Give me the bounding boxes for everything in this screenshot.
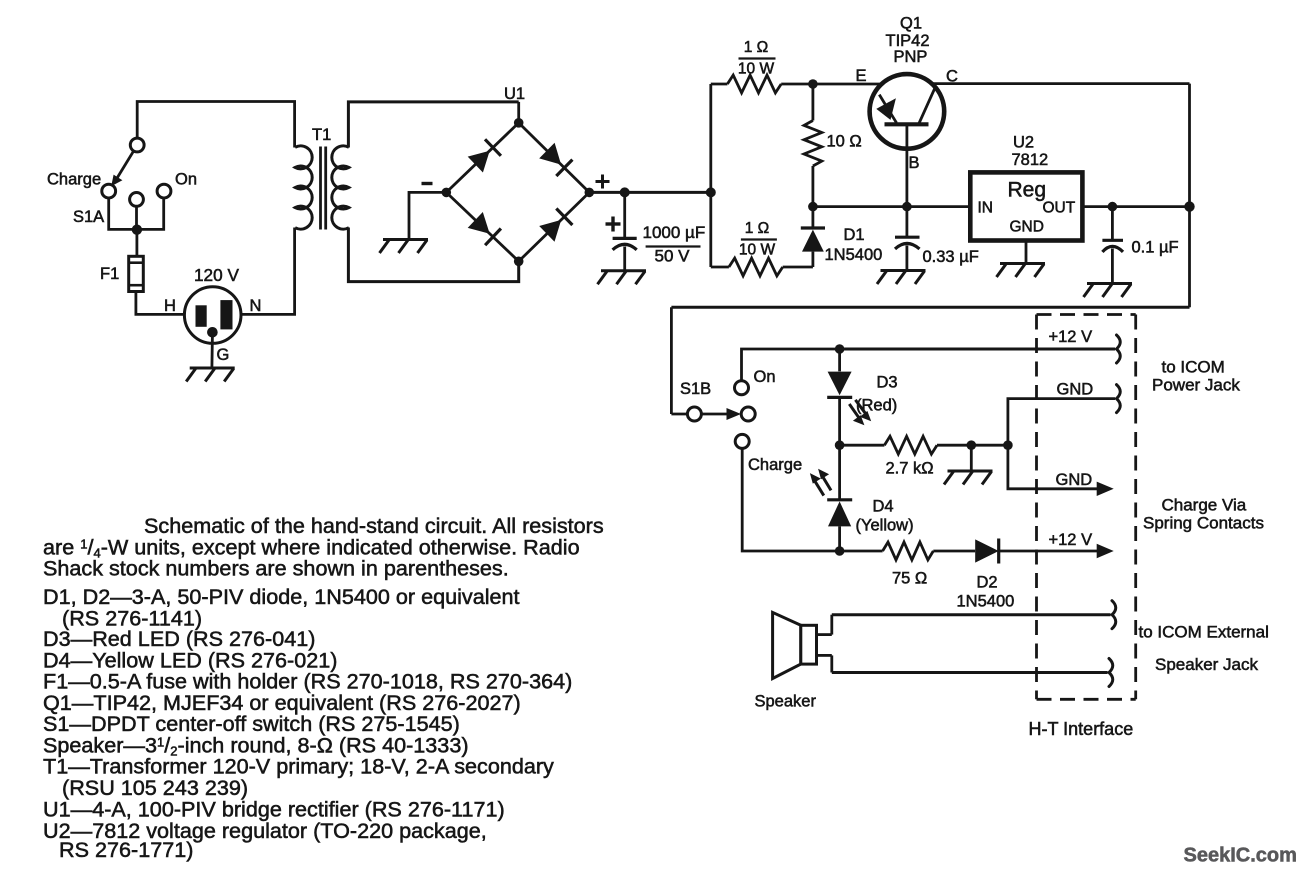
wire bridge to filter xyxy=(589,191,711,194)
node 2.7k gnd tap xyxy=(967,440,977,450)
label 7812 xyxy=(1012,151,1049,169)
label On S1B xyxy=(754,368,776,386)
svg-text:Charge: Charge xyxy=(748,456,802,474)
node branch split xyxy=(706,187,716,197)
plug 120V body xyxy=(184,287,241,344)
wire to top 1ohm xyxy=(711,83,728,86)
resistor R 1ohm bottom xyxy=(729,258,783,276)
label to ICOM External xyxy=(1139,623,1269,642)
wire right rail down xyxy=(1188,84,1191,308)
svg-text:H: H xyxy=(164,297,176,315)
label D4 xyxy=(873,498,894,516)
wire D2 to arrow xyxy=(999,550,1098,553)
transformer T1 core xyxy=(321,147,326,230)
diode D2 xyxy=(975,539,999,564)
wire gnd tap stub xyxy=(970,445,973,471)
bridge diode upper-right xyxy=(539,143,572,176)
wire primary top rail xyxy=(137,102,294,148)
node filter cap xyxy=(620,187,630,197)
wire to bottom 1ohm xyxy=(711,266,729,269)
svg-text:G: G xyxy=(217,346,230,364)
svg-text:GND: GND xyxy=(1010,219,1044,236)
label 75 ohm xyxy=(892,570,927,588)
plug blade H xyxy=(196,305,207,327)
svg-text:0.33 µF: 0.33 µF xyxy=(923,248,979,266)
node D1 rail xyxy=(808,202,818,212)
label F1 xyxy=(100,265,119,283)
plug ground pin xyxy=(207,327,218,338)
svg-text:RS 276-1771): RS 276-1771) xyxy=(59,837,193,862)
label +12V spring xyxy=(1049,531,1093,549)
label cap plus xyxy=(606,217,621,232)
watermark SeekIC.com xyxy=(1184,845,1297,867)
label U2 xyxy=(1013,133,1034,151)
transformer T1 secondary winding xyxy=(332,146,349,229)
node 0.33 cap xyxy=(902,202,912,212)
svg-text:F1: F1 xyxy=(100,265,119,283)
svg-text:Speaker Jack: Speaker Jack xyxy=(1155,655,1258,674)
regulator U2 ground pin xyxy=(1025,241,1028,264)
wire S1A to fuse xyxy=(135,230,138,257)
capacitor C 1000uF xyxy=(613,192,637,270)
label bridge minus xyxy=(422,182,433,185)
ground bridge xyxy=(380,240,429,254)
wire secondary top to bridge xyxy=(348,102,518,148)
label D2 1N5400 xyxy=(957,593,1015,611)
label D1 1N5400 xyxy=(825,246,883,264)
switch S1A Charge contact xyxy=(102,184,116,198)
speaker driver xyxy=(801,625,817,664)
wire S1B Charge lead xyxy=(742,448,839,551)
label 1000 uF xyxy=(643,223,706,242)
label D3 xyxy=(877,374,898,392)
capacitor C 0.1uF xyxy=(1102,207,1123,284)
LED D4 emission arrows xyxy=(810,469,831,496)
speaker leads xyxy=(817,615,832,673)
label 10 W top xyxy=(738,61,775,78)
resistor R 75ohm xyxy=(840,542,934,560)
regulator U2 box xyxy=(970,172,1082,240)
svg-text:D2: D2 xyxy=(977,574,998,592)
svg-text:0.1 µF: 0.1 µF xyxy=(1132,239,1179,257)
label IN xyxy=(978,200,994,217)
diode D1 xyxy=(801,207,825,267)
wire S1A outer contacts xyxy=(109,198,164,229)
switch S1A On contact xyxy=(157,184,171,198)
label E xyxy=(856,67,867,85)
transistor Q1 base lead xyxy=(906,124,909,206)
label D1 xyxy=(844,226,865,244)
resistor R 2.7k xyxy=(884,436,937,454)
arrow GND spring xyxy=(1097,482,1114,496)
label C xyxy=(946,68,958,86)
label On xyxy=(175,171,197,189)
label GND jack xyxy=(1057,381,1094,399)
label Charge S1B xyxy=(748,456,802,474)
label TIP42 xyxy=(886,32,930,50)
svg-text:to ICOM External: to ICOM External xyxy=(1139,623,1269,642)
svg-text:Shack stock numbers are shown: Shack stock numbers are shown in parenth… xyxy=(43,556,509,581)
svg-text:2.7 kΩ: 2.7 kΩ xyxy=(886,460,934,478)
wire speaker top xyxy=(832,613,1111,616)
label GND spring xyxy=(1056,471,1093,489)
fuse F1 xyxy=(129,256,144,291)
hook +12V jack xyxy=(1117,335,1121,363)
switch S1A top contact xyxy=(130,138,144,152)
switch S1B common contact xyxy=(687,407,701,421)
label to ICOM xyxy=(1162,358,1225,377)
caption text block xyxy=(43,513,604,862)
label H xyxy=(164,297,176,315)
label N xyxy=(250,297,262,315)
svg-text:GND: GND xyxy=(1056,471,1093,489)
label U1 xyxy=(504,85,525,103)
svg-text:SeekIC.com: SeekIC.com xyxy=(1184,845,1297,867)
svg-text:10 W: 10 W xyxy=(739,242,776,259)
svg-text:+12 V: +12 V xyxy=(1049,328,1093,346)
switch S1B arm xyxy=(702,408,741,420)
svg-text:H-T Interface: H-T Interface xyxy=(1029,719,1134,739)
wire plug ground lead xyxy=(210,336,213,368)
wire OUT rail xyxy=(1082,205,1189,208)
wire GND jack row xyxy=(1008,399,1115,446)
svg-text:Speaker: Speaker xyxy=(755,693,817,711)
wire 75ohm to D2 xyxy=(933,550,975,553)
svg-text:U1: U1 xyxy=(504,85,525,103)
svg-text:T1: T1 xyxy=(312,126,331,144)
hook speaker bottom jack xyxy=(1109,659,1113,687)
label T1 xyxy=(312,126,331,144)
label 10 ohm xyxy=(827,133,862,151)
switch S1B Charge contact xyxy=(735,434,749,448)
svg-text:+12 V: +12 V xyxy=(1049,531,1093,549)
bridge diode lower-right xyxy=(539,209,572,242)
label 0.1 uF xyxy=(1132,239,1179,257)
node gnd branch xyxy=(1003,440,1013,450)
svg-text:Power Jack: Power Jack xyxy=(1152,376,1240,395)
capacitor C 0.33uF xyxy=(895,207,920,271)
label S1A xyxy=(73,208,104,226)
svg-text:Spring Contacts: Spring Contacts xyxy=(1143,514,1264,533)
label OUT xyxy=(1043,200,1076,217)
wire S1B feed xyxy=(671,307,687,414)
wire branch vertical xyxy=(709,84,712,267)
node OUT a xyxy=(1108,202,1118,212)
label Power Jack xyxy=(1152,376,1240,395)
LED D3 emission arrows xyxy=(849,400,871,425)
label GND regulator xyxy=(1010,219,1044,236)
node LED bottom xyxy=(835,546,845,556)
svg-text:On: On xyxy=(754,368,776,386)
node bridge right xyxy=(585,188,595,198)
wire 2.7k to nodes xyxy=(937,444,1008,447)
label +12V top xyxy=(1049,328,1093,346)
ground filter cap xyxy=(598,271,647,285)
node E rail xyxy=(808,79,818,89)
svg-text:S1B: S1B xyxy=(680,380,711,398)
svg-text:1N5400: 1N5400 xyxy=(825,246,883,264)
wire S1B On lead xyxy=(742,349,840,381)
switch S1A arm xyxy=(111,151,133,186)
wire bottom 1ohm to D1 xyxy=(783,266,813,269)
svg-text:120 V: 120 V xyxy=(194,265,239,285)
label Speaker Jack xyxy=(1155,655,1258,674)
H-T interface dashed box xyxy=(1037,315,1136,700)
plug blade N xyxy=(220,300,232,329)
resistor R 1ohm top xyxy=(727,75,781,93)
label B xyxy=(909,154,920,172)
svg-text:50 V: 50 V xyxy=(655,247,691,266)
svg-text:OUT: OUT xyxy=(1043,200,1076,217)
fraction bar bottom xyxy=(741,238,777,240)
svg-text:1 Ω: 1 Ω xyxy=(744,39,769,56)
fraction bar top xyxy=(739,57,776,59)
svg-text:Charge: Charge xyxy=(47,171,101,189)
switch S1B On contact xyxy=(735,381,749,395)
svg-text:Q1: Q1 xyxy=(900,15,922,33)
switch S1A center contact xyxy=(130,193,144,207)
label Charge Via xyxy=(1162,496,1247,515)
node bridge left xyxy=(442,188,452,198)
svg-text:IN: IN xyxy=(978,200,994,217)
node bridge bottom xyxy=(514,257,524,267)
label bridge plus xyxy=(596,175,610,189)
svg-text:1N5400: 1N5400 xyxy=(957,593,1015,611)
node LED mid xyxy=(835,440,845,450)
label D3 Red xyxy=(856,397,897,415)
switch S1B center contact xyxy=(741,407,755,421)
svg-text:Reg: Reg xyxy=(1008,179,1047,202)
svg-text:PNP: PNP xyxy=(894,48,928,66)
label Spring Contacts xyxy=(1143,514,1264,533)
svg-text:1 Ω: 1 Ω xyxy=(745,220,770,237)
svg-text:(Yellow): (Yellow) xyxy=(856,517,914,535)
arrow +12V spring xyxy=(1097,544,1114,558)
label 120 V xyxy=(194,265,239,285)
svg-text:10 W: 10 W xyxy=(738,61,775,78)
label 1 ohm top xyxy=(744,39,769,56)
wire S1A center lead xyxy=(135,206,138,229)
bridge diode lower-left xyxy=(468,212,501,245)
ground 0.1 cap xyxy=(1084,284,1133,298)
ground plug xyxy=(186,368,235,382)
resistor R 10ohm xyxy=(804,84,822,207)
bridge diode upper-left xyxy=(468,139,501,172)
label 0.33 uF xyxy=(923,248,979,266)
label D4 Yellow xyxy=(856,517,914,535)
wire E node to transistor xyxy=(813,83,883,86)
wire speaker bottom xyxy=(832,671,1108,674)
svg-text:On: On xyxy=(175,171,197,189)
label 1 ohm bottom xyxy=(745,220,770,237)
node OUT b xyxy=(1184,201,1194,211)
wire plug to transformer xyxy=(241,228,295,315)
svg-text:D1: D1 xyxy=(844,226,865,244)
wire bridge left to ground xyxy=(409,192,446,239)
fraction bar 1000uF xyxy=(646,245,701,247)
svg-text:D4: D4 xyxy=(873,498,894,516)
transistor Q1 emitter xyxy=(876,95,896,123)
label Speaker xyxy=(755,693,817,711)
label 50 V xyxy=(655,247,691,266)
wire LED to 2.7k xyxy=(840,444,885,447)
label 10 W bottom xyxy=(739,242,776,259)
ground spring contact xyxy=(944,471,993,485)
svg-text:10 Ω: 10 Ω xyxy=(827,133,862,151)
transistor Q1 collector xyxy=(919,86,936,124)
svg-text:D3: D3 xyxy=(877,374,898,392)
svg-text:B: B xyxy=(909,154,920,172)
svg-text:1000 µF: 1000 µF xyxy=(643,223,706,242)
svg-text:75 Ω: 75 Ω xyxy=(892,570,927,588)
label H-T Interface xyxy=(1029,719,1134,739)
transformer T1 primary winding xyxy=(295,146,312,229)
svg-text:GND: GND xyxy=(1057,381,1094,399)
svg-text:7812: 7812 xyxy=(1012,151,1049,169)
svg-text:to ICOM: to ICOM xyxy=(1162,358,1225,377)
wire secondary bottom to bridge xyxy=(348,228,518,282)
label S1B xyxy=(680,380,711,398)
label Reg xyxy=(1008,179,1047,202)
hook speaker top jack xyxy=(1112,601,1116,629)
LED D4 xyxy=(827,445,852,551)
svg-text:(Red): (Red) xyxy=(856,397,897,415)
junction S1A common xyxy=(132,225,142,235)
svg-text:N: N xyxy=(250,297,262,315)
wire +12V top rail xyxy=(840,348,1115,351)
wire mid rail xyxy=(813,205,970,208)
hook GND jack xyxy=(1117,385,1121,413)
svg-text:U2: U2 xyxy=(1013,133,1034,151)
label Charge xyxy=(47,171,101,189)
wire collector rail xyxy=(932,82,1190,85)
label Q1 xyxy=(900,15,922,33)
svg-text:S1A: S1A xyxy=(73,208,104,226)
wire top 1ohm to E node xyxy=(781,83,813,86)
node bridge top xyxy=(514,118,524,128)
label G xyxy=(217,346,230,364)
wire bottom return rail xyxy=(671,306,1189,309)
svg-text:Charge Via: Charge Via xyxy=(1162,496,1247,515)
transistor Q1 body xyxy=(870,74,945,149)
label 2.7 kohm xyxy=(886,460,934,478)
speaker cone xyxy=(773,612,801,678)
rectifier U1 bridge frame xyxy=(446,123,589,261)
ground 0.33 cap xyxy=(877,271,926,285)
transistor Q1 base bar xyxy=(885,122,929,126)
label PNP xyxy=(894,48,928,66)
label D2 xyxy=(977,574,998,592)
wire GND spring row xyxy=(1008,445,1098,489)
ground regulator xyxy=(997,264,1046,278)
LED D3 xyxy=(827,349,852,445)
svg-text:E: E xyxy=(856,67,867,85)
node LED top xyxy=(835,344,845,354)
wire fuse to plug xyxy=(136,292,185,315)
